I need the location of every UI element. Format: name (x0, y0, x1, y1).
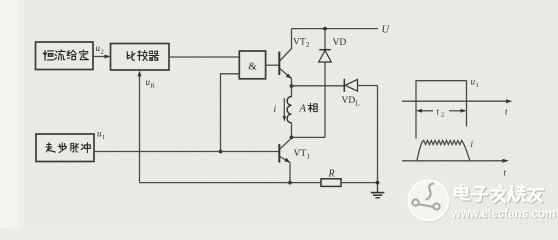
junction dot emitter node (290, 84, 294, 88)
watermark text 电子发烧友 (455, 185, 543, 202)
diode VDL (horizontal, cathode left) (344, 79, 377, 92)
watermark logo circle (409, 181, 450, 222)
svg-text:A: A (299, 104, 307, 115)
wire top rail to U (292, 28, 379, 30)
wire VT2 collector up to +U rail (291, 29, 293, 49)
svg-text:i: i (274, 105, 277, 115)
svg-text:VD: VD (333, 38, 347, 48)
transistor VT2 (279, 49, 292, 79)
junction dot ground node (376, 181, 380, 185)
wire VT2 emitter node (291, 79, 293, 87)
ground (371, 183, 385, 198)
junction dot winding bottom (290, 136, 294, 140)
svg-text:www.elecfans.com: www.elecfans.com (451, 206, 556, 221)
block 恒流给定 text (hand-drawn CJK) (43, 50, 88, 60)
current i waveform with chopper ripple (417, 140, 470, 160)
block 比较器 text (hand-drawn CJK) (127, 50, 159, 60)
block 恒流给定 (constant-current setting) box (36, 42, 94, 70)
resistor R (321, 179, 341, 187)
wire AND input B (from step-pulse line) (221, 74, 240, 152)
wire bottom rail right section (341, 182, 378, 184)
wire u2: box1 to comparator with arrow (93, 56, 108, 58)
svg-text:2: 2 (441, 112, 444, 119)
svg-text:VT: VT (294, 149, 307, 159)
watermark text 电子发烧友 shadow (456, 186, 544, 203)
svg-text:1: 1 (476, 82, 479, 89)
svg-text:VT: VT (293, 38, 306, 48)
svg-text:R: R (151, 83, 156, 90)
svg-text:VD: VD (342, 96, 356, 106)
wire winding bottom to VD anode (292, 136, 326, 138)
dimension t2 arrows (416, 109, 467, 113)
svg-text:R: R (328, 169, 335, 180)
inductor A-phase winding (287, 86, 291, 137)
block 走步脉冲 text (hand-drawn CJK) (46, 143, 90, 153)
svg-text:1: 1 (102, 134, 105, 141)
transistor VT1 (279, 138, 291, 163)
current i arrow (283, 98, 286, 122)
junction dot VT1 emitter on bottom rail (288, 181, 292, 185)
pulse u1 waveform (416, 81, 467, 139)
svg-text:2: 2 (101, 49, 104, 56)
wire AND output to VT2 base (266, 64, 279, 66)
wire emitter node to VDL (292, 85, 345, 87)
svg-text:L: L (356, 100, 360, 108)
svg-text:1: 1 (307, 153, 311, 161)
axis t (pulse plot) (402, 100, 510, 102)
svg-text:&: & (248, 60, 257, 72)
and-gate U1 box (239, 51, 265, 79)
block 比较器 (comparator) box (111, 44, 170, 71)
block 走步脉冲 (step pulse) box (36, 134, 94, 162)
wire bottom rail left section (140, 182, 322, 184)
junction dot VD on rail (323, 27, 327, 31)
diode VD (freewheel, cathode to rail) (319, 29, 332, 138)
wire VT1 emitter down (289, 163, 291, 183)
axis t (current plot) (402, 160, 507, 162)
wire feedback uR: from bottom rail up to comparator (139, 73, 141, 183)
wire VDL anode down to ground rail (377, 86, 379, 183)
svg-text:2: 2 (306, 41, 310, 49)
wire step pulse to VT1 base (94, 151, 279, 153)
junction dot on step-pulse line (219, 150, 223, 154)
wire comparator output to AND gate (169, 56, 239, 58)
